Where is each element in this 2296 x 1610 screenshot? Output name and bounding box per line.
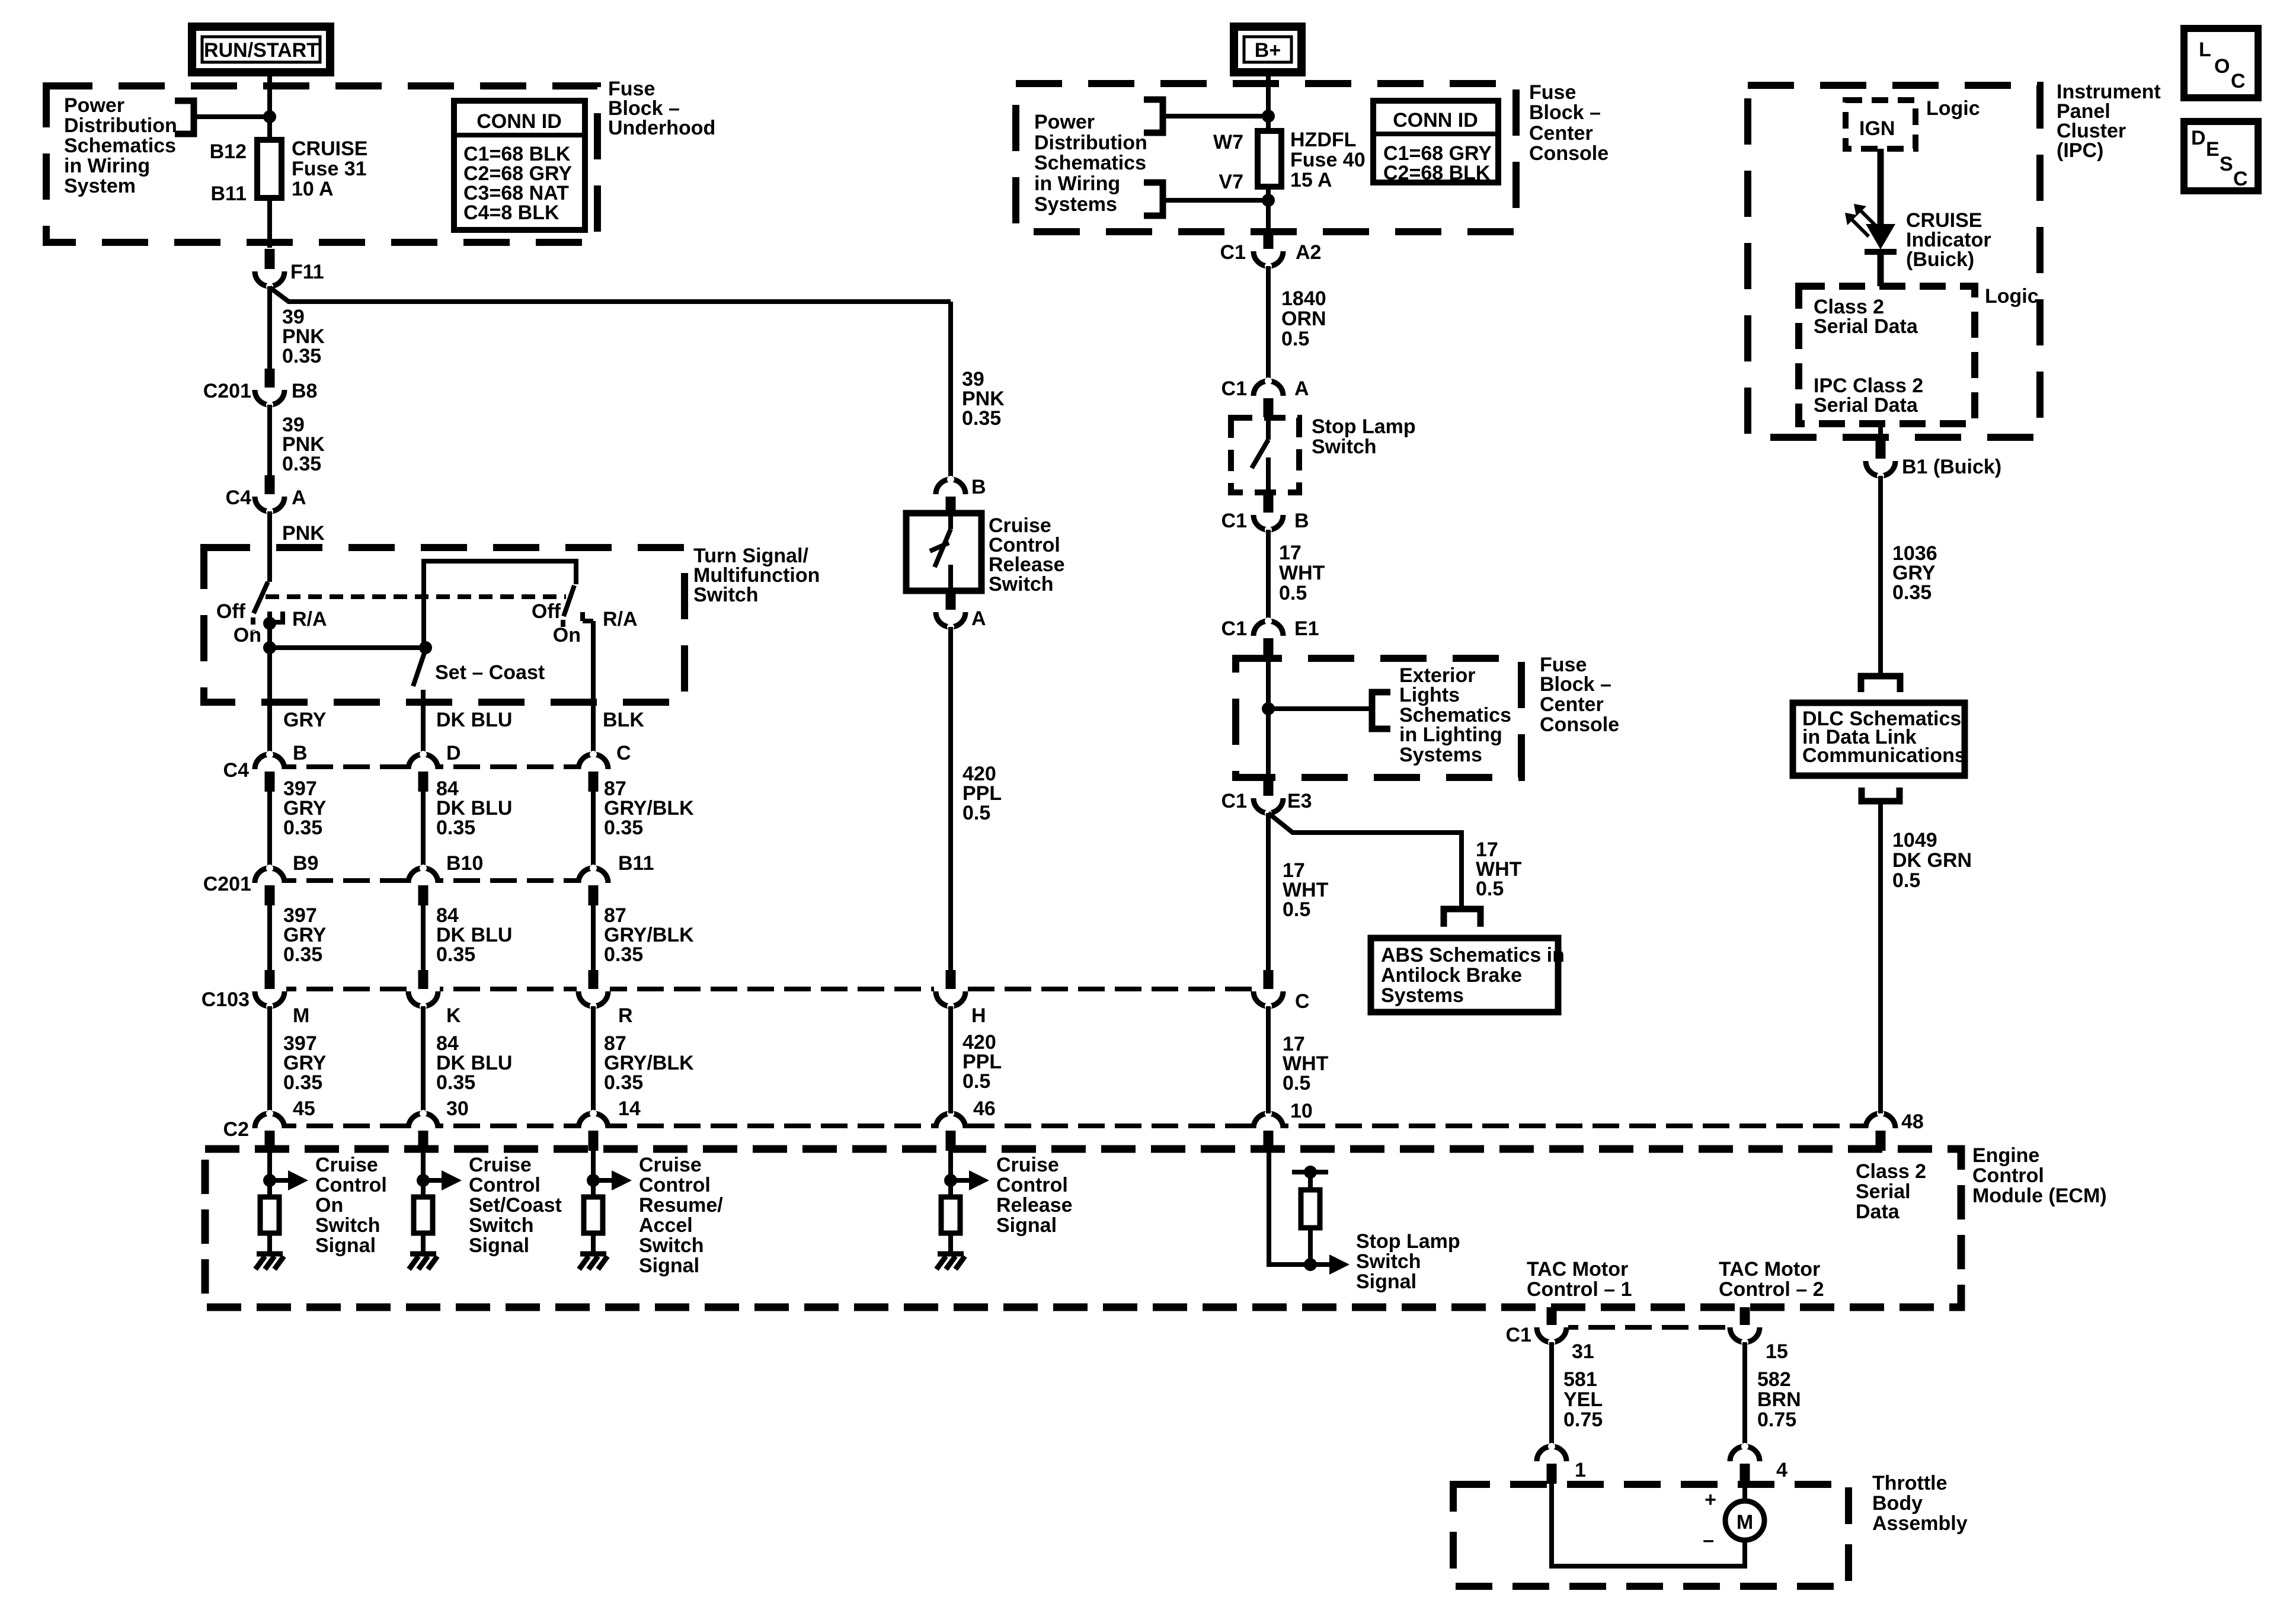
svg-text:S: S bbox=[2220, 153, 2233, 175]
wire C4 A into multifunction switch bbox=[267, 511, 272, 582]
svg-text:E3: E3 bbox=[1287, 790, 1312, 812]
wire resistor to ground (col3) bbox=[591, 1233, 596, 1254]
ground (resume/accel) bbox=[579, 1254, 607, 1269]
svg-text:HZDFL: HZDFL bbox=[1290, 129, 1356, 151]
svg-text:V7: V7 bbox=[1219, 171, 1243, 193]
arrow cruise control set/coast switch signal bbox=[423, 1170, 462, 1190]
svg-text:Distribution: Distribution bbox=[64, 114, 177, 137]
wire IGN to indicator bbox=[1878, 149, 1884, 225]
turn signal multifunction switch dashed box bbox=[204, 548, 685, 702]
wire motor loop to pin 1 bbox=[1552, 1484, 1745, 1566]
label Stop Lamp Switch Signal bbox=[1356, 1230, 1460, 1293]
wire lower bracket to fuse output bbox=[1163, 198, 1268, 203]
wire branch E3 to ABS bbox=[1268, 813, 1462, 909]
switch linkage dotted line bbox=[266, 594, 566, 599]
label Turn Signal/ Multifunction Switch bbox=[693, 545, 820, 606]
instrument panel cluster dashed box bbox=[1748, 85, 2040, 437]
resistor cruise on bbox=[260, 1197, 279, 1233]
svg-text:B9: B9 bbox=[293, 852, 318, 875]
svg-text:C201: C201 bbox=[203, 380, 251, 402]
wire label 1049 DK GRN 0.5 bbox=[1892, 829, 1972, 892]
svg-text:Switch: Switch bbox=[315, 1214, 380, 1237]
arrow stop lamp switch signal bbox=[1329, 1254, 1350, 1275]
connector F11 bbox=[253, 249, 324, 290]
svg-text:YEL: YEL bbox=[1563, 1388, 1603, 1411]
svg-text:Fuse 40: Fuse 40 bbox=[1290, 149, 1366, 171]
wire col2 to C4 row bbox=[421, 690, 426, 757]
label Fuse Block - Center Console bbox=[1529, 81, 1609, 165]
svg-text:Control: Control bbox=[996, 1174, 1068, 1196]
junction dot set-coast bbox=[419, 641, 432, 654]
svg-text:CONN ID: CONN ID bbox=[477, 110, 562, 133]
stop lamp pullup bar bbox=[1292, 1170, 1328, 1174]
connector C1 pin E1 bbox=[1221, 617, 1319, 657]
junction dot stop lamp signal bbox=[1304, 1258, 1317, 1271]
svg-text:Off: Off bbox=[532, 600, 561, 623]
connector throttle pin 1 bbox=[1535, 1443, 1586, 1484]
wire upper bracket to B+ feed bbox=[1163, 114, 1268, 119]
svg-text:Antilock Brake: Antilock Brake bbox=[1381, 964, 1522, 987]
svg-text:IGN: IGN bbox=[1859, 117, 1895, 140]
svg-text:C1: C1 bbox=[1221, 510, 1247, 532]
junction dot R/A (left) bbox=[263, 617, 276, 630]
svg-text:Release: Release bbox=[996, 1194, 1073, 1217]
svg-text:M: M bbox=[293, 1004, 309, 1027]
svg-text:Cruise: Cruise bbox=[996, 1154, 1059, 1176]
svg-text:Control: Control bbox=[1972, 1164, 2044, 1187]
svg-text:in Wiring: in Wiring bbox=[64, 155, 150, 177]
wire label 17 WHT 0.5 (C to 10) bbox=[1283, 1033, 1329, 1094]
wire C2-46 into ECM bbox=[948, 1151, 953, 1197]
svg-text:C4: C4 bbox=[226, 486, 252, 509]
svg-text:C103: C103 bbox=[202, 988, 250, 1011]
release switch blade bbox=[930, 514, 951, 591]
svg-text:Control – 1: Control – 1 bbox=[1527, 1278, 1632, 1301]
label IPC Class 2 Serial Data bbox=[1814, 375, 1923, 417]
junction dot pullup top bbox=[1304, 1166, 1317, 1179]
svg-text:0.35: 0.35 bbox=[283, 943, 322, 966]
svg-text:0.35: 0.35 bbox=[436, 1071, 475, 1094]
wire C103 to C2 col3 bbox=[591, 1006, 596, 1113]
wire indicator to logic box bbox=[1878, 252, 1884, 286]
connector C4 pin C bbox=[577, 742, 631, 792]
resistor release bbox=[941, 1197, 960, 1233]
junction dot cruise on signal bbox=[263, 1174, 276, 1187]
wire C201 to C103 col3 bbox=[591, 905, 596, 971]
connector C1 pin 31 bbox=[1506, 1307, 1594, 1363]
wire DLC to ECM pin 48 bbox=[1878, 801, 1883, 1113]
wire logic box to B1 bbox=[1878, 424, 1883, 443]
svg-text:0.5: 0.5 bbox=[1281, 328, 1309, 350]
svg-text:WHT: WHT bbox=[1279, 562, 1325, 584]
resistor stop lamp bbox=[1301, 1190, 1320, 1228]
connector row C1 TAC dotted line bbox=[1552, 1325, 1745, 1330]
wire E1 through exterior block bbox=[1266, 657, 1271, 780]
CONN ID table center console bbox=[1373, 101, 1498, 184]
cruise control release switch box bbox=[906, 513, 981, 591]
svg-text:0.35: 0.35 bbox=[604, 817, 643, 839]
wire C4D to C201 bbox=[421, 792, 426, 869]
fuse block center console dashed box bbox=[1016, 84, 1516, 232]
svg-text:10: 10 bbox=[1290, 1100, 1313, 1122]
connector C201 pin B8 bbox=[203, 369, 318, 408]
IGN logic dashed box bbox=[1846, 100, 1916, 149]
svg-text:BRN: BRN bbox=[1757, 1388, 1801, 1411]
wire C103 to C2 col2 bbox=[421, 1006, 426, 1113]
arrow cruise control on switch signal bbox=[270, 1170, 308, 1190]
junction dot on bus (left) bbox=[263, 641, 276, 654]
svg-text:Block –: Block – bbox=[1529, 101, 1601, 124]
svg-text:PNK: PNK bbox=[282, 522, 325, 545]
wire C2-45 into ECM bbox=[267, 1151, 272, 1197]
svg-text:17: 17 bbox=[1279, 542, 1302, 564]
connector row C2 dotted line bbox=[270, 1124, 1881, 1128]
svg-text:Switch: Switch bbox=[989, 573, 1054, 596]
svg-text:Logic: Logic bbox=[1926, 97, 1980, 120]
wire branch F11 to release switch run bbox=[270, 287, 951, 302]
label Exterior Lights Schematics in Lighting Systems bbox=[1399, 664, 1511, 766]
wire pin4 to motor bbox=[1742, 1484, 1747, 1501]
svg-text:Signal: Signal bbox=[639, 1254, 699, 1277]
wire label 17 WHT 0.5 (E3 to C) bbox=[1283, 859, 1329, 921]
connector row C103 dotted line bbox=[270, 987, 1268, 991]
wire label 87 GRY/BLK 0.35 (2) bbox=[604, 904, 694, 966]
wire TAC2 to throttle bbox=[1742, 1342, 1747, 1448]
svg-text:Block –: Block – bbox=[1540, 673, 1611, 696]
connector release pin B bbox=[934, 476, 986, 514]
wire label 397 GRY 0.35 (1) bbox=[283, 777, 327, 839]
continuation bracket exterior lights bbox=[1372, 692, 1390, 729]
svg-text:0.5: 0.5 bbox=[1283, 1072, 1310, 1094]
svg-text:R: R bbox=[618, 1004, 633, 1027]
power feed box RUN/START bbox=[192, 27, 330, 72]
wire B to E1 bbox=[1266, 530, 1271, 622]
svg-text:Distribution: Distribution bbox=[1034, 132, 1147, 154]
svg-text:Signal: Signal bbox=[1356, 1270, 1416, 1293]
svg-text:B8: B8 bbox=[292, 380, 317, 402]
svg-text:Switch: Switch bbox=[1356, 1250, 1421, 1273]
wire C2-30 into ECM bbox=[421, 1151, 426, 1197]
svg-text:0.35: 0.35 bbox=[436, 943, 475, 966]
svg-text:0.5: 0.5 bbox=[1279, 582, 1307, 604]
label Fuse Block - Underhood bbox=[608, 78, 715, 139]
svg-text:Module (ECM): Module (ECM) bbox=[1972, 1185, 2107, 1207]
svg-text:48: 48 bbox=[1901, 1110, 1924, 1133]
label Power Distribution Schematics in Wiring Systems bbox=[1034, 111, 1147, 216]
continuation bracket out of DLC bbox=[1862, 788, 1900, 801]
svg-text:A: A bbox=[292, 486, 306, 509]
svg-text:C2: C2 bbox=[223, 1118, 249, 1141]
LOC reference box bbox=[2184, 28, 2258, 98]
svg-text:CONN ID: CONN ID bbox=[1393, 109, 1478, 132]
junction dot resume/accel signal bbox=[587, 1174, 600, 1187]
svg-text:E: E bbox=[2206, 138, 2220, 161]
svg-text:ABS Schematics in: ABS Schematics in bbox=[1381, 944, 1565, 966]
fuse HZDFL Fuse 40 15A bbox=[1258, 116, 1366, 191]
svg-text:0.75: 0.75 bbox=[1757, 1409, 1796, 1431]
svg-text:C1: C1 bbox=[1221, 617, 1247, 640]
connector C2 pin 45 bbox=[223, 1097, 315, 1151]
switch blade on/off (right) bbox=[564, 585, 574, 616]
svg-text:Systems: Systems bbox=[1034, 193, 1117, 216]
wire label 39 PNK 0.35 (fuse output) bbox=[282, 306, 325, 367]
svg-text:1840: 1840 bbox=[1281, 287, 1326, 310]
connector C1 pin A bbox=[1221, 377, 1309, 417]
connector row C201 dotted line bbox=[270, 878, 593, 883]
svg-text:0.35: 0.35 bbox=[1892, 581, 1932, 604]
svg-text:45: 45 bbox=[293, 1097, 315, 1120]
wire junction to fuse bbox=[267, 117, 272, 140]
svg-text:0.5: 0.5 bbox=[962, 802, 990, 824]
svg-text:Console: Console bbox=[1540, 713, 1619, 736]
fuse block underhood dashed box bbox=[46, 86, 597, 242]
wire F11 to C201 bbox=[267, 286, 272, 370]
connector C1 pin 15 bbox=[1728, 1307, 1788, 1363]
svg-text:GRY: GRY bbox=[283, 709, 327, 731]
wire pullup to resistor bbox=[1308, 1172, 1313, 1190]
wire release to C103 bbox=[948, 627, 953, 971]
svg-text:B10: B10 bbox=[446, 852, 483, 875]
continuation bracket to power distribution bbox=[175, 101, 194, 134]
wire C201 to C103 col1 bbox=[267, 905, 272, 971]
svg-text:M: M bbox=[1737, 1511, 1753, 1534]
wire resistor to main (stop lamp) bbox=[1308, 1228, 1313, 1265]
svg-text:Control: Control bbox=[639, 1174, 711, 1196]
wire label 397 GRY 0.35 (2) bbox=[283, 904, 327, 966]
svg-text:Cruise: Cruise bbox=[639, 1154, 702, 1176]
label Cruise Control Set/Coast Switch Signal bbox=[469, 1154, 562, 1257]
svg-text:0.35: 0.35 bbox=[282, 453, 321, 475]
resistor set/coast bbox=[414, 1197, 433, 1233]
svg-text:B11: B11 bbox=[618, 852, 654, 875]
label Throttle Body Assembly bbox=[1872, 1472, 1968, 1535]
junction node on fuse feed bbox=[263, 110, 276, 123]
svg-text:15 A: 15 A bbox=[1290, 169, 1332, 191]
off position tick (right switch) bbox=[561, 620, 565, 632]
svg-text:Fuse: Fuse bbox=[1529, 81, 1576, 104]
svg-text:DK BLU: DK BLU bbox=[436, 709, 512, 731]
arrow cruise control resume/accel switch signal bbox=[593, 1170, 632, 1190]
connector C2 pin 10 bbox=[1252, 1100, 1313, 1151]
label Cruise Control Resume/Accel Switch Signal bbox=[639, 1154, 723, 1277]
svg-text:E1: E1 bbox=[1294, 617, 1319, 640]
svg-text:0.5: 0.5 bbox=[1283, 898, 1310, 921]
svg-text:Resume/: Resume/ bbox=[639, 1194, 723, 1217]
continuation bracket lower (power dist) bbox=[1144, 183, 1163, 216]
junction dot exterior lights bbox=[1262, 702, 1275, 715]
svg-text:C1: C1 bbox=[1220, 241, 1246, 264]
svg-text:BLK: BLK bbox=[603, 709, 644, 731]
svg-text:B11: B11 bbox=[211, 183, 247, 205]
svg-text:Fuse 31: Fuse 31 bbox=[292, 158, 367, 180]
svg-text:K: K bbox=[446, 1004, 461, 1027]
junction dot above fuse 40 bbox=[1262, 110, 1275, 123]
fuse block center console (exterior lights) dashed box bbox=[1236, 658, 1521, 777]
label Class 2 Serial Data (ECM) bbox=[1856, 1160, 1926, 1223]
svg-text:0.35: 0.35 bbox=[604, 1071, 643, 1094]
wire C4C to C201 bbox=[591, 792, 596, 869]
wire release run down bbox=[948, 302, 953, 479]
svg-text:(IPC): (IPC) bbox=[2057, 139, 2103, 162]
wire label 397 GRY 0.35 (3) bbox=[283, 1032, 327, 1094]
svg-text:46: 46 bbox=[973, 1097, 996, 1120]
svg-text:in Lighting: in Lighting bbox=[1399, 724, 1502, 746]
svg-text:Switch: Switch bbox=[639, 1234, 704, 1257]
svg-text:Class 2: Class 2 bbox=[1856, 1160, 1926, 1183]
connector C4 pin D bbox=[407, 742, 461, 792]
connector C103 pin R bbox=[577, 970, 633, 1027]
svg-text:On: On bbox=[553, 624, 581, 646]
label Instrument Panel Cluster (IPC) bbox=[2057, 81, 2161, 162]
svg-text:F11: F11 bbox=[290, 261, 324, 283]
ground (cruise on) bbox=[255, 1254, 284, 1269]
label Engine Control Module (ECM) bbox=[1972, 1144, 2107, 1207]
label TAC Motor Control - 2 bbox=[1719, 1258, 1824, 1301]
svg-text:Serial: Serial bbox=[1856, 1180, 1911, 1203]
stop lamp switch dashed box bbox=[1231, 418, 1299, 492]
svg-text:0.5: 0.5 bbox=[1892, 869, 1920, 892]
wire label 17 WHT 0.5 (B to E1) bbox=[1279, 542, 1325, 604]
svg-text:On: On bbox=[315, 1194, 343, 1217]
junction dot release signal bbox=[944, 1174, 957, 1187]
wire label 87 GRY/BLK 0.35 (3) bbox=[604, 1032, 694, 1094]
svg-text:Data: Data bbox=[1856, 1201, 1900, 1223]
svg-text:D: D bbox=[446, 742, 461, 764]
svg-text:C: C bbox=[2231, 70, 2246, 92]
svg-text:Schematics: Schematics bbox=[1034, 152, 1146, 174]
wire C2-14 into ECM bbox=[591, 1151, 596, 1197]
svg-text:C1: C1 bbox=[1221, 377, 1247, 400]
connector C1 pin A2 bbox=[1220, 232, 1322, 270]
connector C2 pin 14 bbox=[577, 1097, 641, 1151]
diode cruise indicator bbox=[1865, 224, 1897, 252]
svg-text:R/A: R/A bbox=[292, 608, 327, 630]
svg-text:H: H bbox=[971, 1004, 986, 1027]
svg-text:in Wiring: in Wiring bbox=[1034, 172, 1120, 195]
connector C103 pin K bbox=[407, 970, 461, 1027]
svg-text:A: A bbox=[971, 607, 986, 630]
svg-text:Console: Console bbox=[1529, 142, 1609, 165]
svg-text:Signal: Signal bbox=[469, 1234, 529, 1257]
LED arrows (cruise indicator) bbox=[1845, 204, 1878, 236]
svg-text:Off: Off bbox=[216, 600, 246, 623]
svg-text:Serial Data: Serial Data bbox=[1814, 394, 1918, 417]
svg-text:0.35: 0.35 bbox=[283, 1071, 322, 1094]
svg-text:Cruise: Cruise bbox=[469, 1154, 532, 1176]
wire fuse to F11 bbox=[267, 198, 272, 248]
connector B1 (Buick) bbox=[1864, 441, 2001, 479]
svg-text:582: 582 bbox=[1757, 1368, 1791, 1391]
svg-text:Stop Lamp: Stop Lamp bbox=[1356, 1230, 1460, 1253]
svg-text:DK GRN: DK GRN bbox=[1892, 849, 1972, 872]
wire C201 to C103 col2 bbox=[421, 905, 426, 971]
wire bracket to bus bbox=[194, 114, 270, 119]
svg-text:1: 1 bbox=[1575, 1459, 1586, 1481]
svg-text:Set/Coast: Set/Coast bbox=[469, 1194, 562, 1217]
svg-text:14: 14 bbox=[618, 1097, 641, 1120]
ECM dashed box bbox=[205, 1149, 1961, 1307]
svg-text:Systems: Systems bbox=[1399, 744, 1482, 766]
svg-text:D: D bbox=[2191, 127, 2206, 149]
wire resistor to ground (col1) bbox=[267, 1233, 272, 1254]
wire label 39 PNK 0.35 (release) bbox=[962, 368, 1005, 430]
svg-text:TAC Motor: TAC Motor bbox=[1527, 1258, 1628, 1281]
ground (release) bbox=[936, 1254, 965, 1269]
svg-text:A: A bbox=[1294, 377, 1309, 400]
svg-text:L: L bbox=[2199, 39, 2211, 61]
svg-text:B1 (Buick): B1 (Buick) bbox=[1902, 456, 2001, 478]
svg-text:Center: Center bbox=[1540, 693, 1604, 716]
resistor resume/accel bbox=[584, 1197, 603, 1233]
svg-text:Accel: Accel bbox=[639, 1214, 693, 1237]
svg-text:R/A: R/A bbox=[603, 608, 638, 630]
DESC reference box bbox=[2184, 121, 2258, 191]
svg-text:RUN/START: RUN/START bbox=[204, 39, 319, 62]
wire label 84 DK BLU 0.35 (3) bbox=[436, 1032, 512, 1094]
switch blade on/off (left) bbox=[254, 582, 268, 613]
svg-text:C4=8 BLK: C4=8 BLK bbox=[463, 201, 559, 224]
svg-text:Schematics: Schematics bbox=[64, 135, 176, 157]
class 2 serial data logic dashed box bbox=[1799, 286, 1975, 424]
svg-text:581: 581 bbox=[1563, 1368, 1597, 1391]
wire RUN/START to fuse block bbox=[267, 72, 272, 119]
svg-text:Control: Control bbox=[469, 1174, 541, 1196]
label Cruise Control On Switch Signal bbox=[315, 1154, 387, 1257]
svg-text:O: O bbox=[2214, 55, 2230, 78]
connector C1 pin E3 bbox=[1221, 779, 1312, 817]
svg-text:C1: C1 bbox=[1221, 790, 1247, 812]
connector C201 pin B10 bbox=[407, 852, 483, 905]
wire C to C2-10 bbox=[1266, 1006, 1271, 1113]
svg-text:System: System bbox=[64, 175, 136, 197]
CONN ID table underhood bbox=[454, 101, 585, 230]
DLC schematics box bbox=[1793, 703, 1966, 776]
svg-text:Cruise: Cruise bbox=[315, 1154, 378, 1176]
wire TAC1 to throttle bbox=[1549, 1342, 1554, 1448]
connector throttle pin 4 bbox=[1728, 1443, 1787, 1484]
svg-text:4: 4 bbox=[1776, 1459, 1787, 1481]
svg-text:10 A: 10 A bbox=[292, 178, 334, 200]
svg-text:Throttle: Throttle bbox=[1872, 1472, 1948, 1494]
svg-text:30: 30 bbox=[446, 1097, 469, 1120]
wire B+ to fuse block bbox=[1266, 72, 1271, 116]
svg-text:Assembly: Assembly bbox=[1872, 1512, 1968, 1535]
continuation bracket ABS bbox=[1444, 909, 1480, 927]
svg-text:Lights: Lights bbox=[1399, 684, 1460, 706]
svg-text:Control: Control bbox=[315, 1174, 387, 1196]
wire label 1036 GRY 0.35 bbox=[1892, 542, 1937, 604]
svg-text:B: B bbox=[1294, 510, 1309, 532]
svg-text:31: 31 bbox=[1572, 1340, 1594, 1363]
svg-text:C2=68 BLK: C2=68 BLK bbox=[1383, 162, 1491, 184]
connector C103 pin M bbox=[202, 970, 310, 1027]
svg-text:0.75: 0.75 bbox=[1563, 1409, 1603, 1431]
svg-text:Body: Body bbox=[1872, 1492, 1923, 1515]
svg-text:0.35: 0.35 bbox=[604, 943, 643, 966]
wire B1 to DLC bracket bbox=[1878, 476, 1883, 676]
svg-text:Underhood: Underhood bbox=[608, 117, 715, 139]
svg-text:C: C bbox=[1295, 990, 1310, 1013]
connector release pin A bbox=[934, 591, 986, 630]
motor M bbox=[1725, 1501, 1764, 1540]
svg-text:Engine: Engine bbox=[1972, 1144, 2039, 1167]
wire H to C2-46 bbox=[948, 1006, 953, 1113]
wire resistor to ground (col4) bbox=[948, 1233, 953, 1254]
svg-text:(Buick): (Buick) bbox=[1906, 248, 1974, 271]
wire C2-10 stop lamp into ECM bbox=[1269, 1151, 1329, 1265]
svg-text:0.35: 0.35 bbox=[436, 817, 475, 839]
svg-text:B+: B+ bbox=[1255, 39, 1281, 62]
